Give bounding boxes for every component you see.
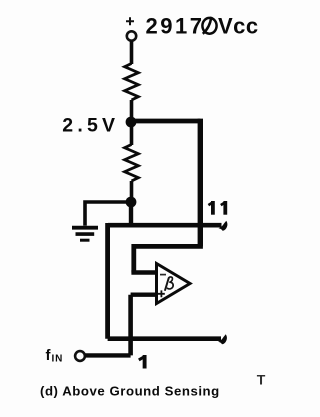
svg-text:T: T [257,372,266,388]
wire: 2.5V node to R2 [130,126,134,145]
plus sign above Vcc terminal [126,17,134,25]
wire: short vertical down to minus-input level [131,244,136,273]
wire: R1 to 2.5V node [130,100,134,118]
caption: (d) Above Ground Sensing [40,384,220,399]
resistor R1 (upper divider resistor) [125,64,139,101]
plus pin mark [158,290,165,297]
wire: left bus vertical [105,223,110,339]
label pin 1 [139,355,145,369]
stray letter T (cropped text) [257,372,266,388]
ground symbol [72,228,98,241]
wire: R2 to lower junction [130,181,134,200]
resistor R2 (lower divider resistor) [125,145,139,182]
wire: junction down to pin-11 lead [129,202,133,225]
wire: stub into op-amp non-inverting input [131,293,157,297]
wire: horizontal back to left [134,244,203,249]
wire: junction to ground [85,202,131,226]
wire: 2.5V node to right [131,119,200,124]
label 2917のVcc [146,14,259,39]
svg-text:(d) Above Ground Sensing: (d) Above Ground Sensing [40,384,220,399]
Vcc terminal circle [127,31,136,40]
fIN terminal circle [75,351,85,361]
beta symbol inside op-amp [165,277,173,290]
minus pin mark [160,274,166,276]
node 2.5V junction dot [126,117,137,128]
label fIN [46,347,64,365]
wire: pin-1 vertical down to fIN line [128,295,133,356]
svg-text:2.5V: 2.5V [62,115,119,137]
op-amp U1 (comparator) [157,264,191,304]
wire: terminal to R1 [130,41,134,64]
lead continuation tick (bottom lead) [218,334,227,344]
wire: bottom lead to the right [108,336,221,341]
wire: right vertical down [198,119,203,247]
lead continuation tick (pin 11) [219,221,228,231]
label pin 11 [208,201,225,215]
junction dot below R2 [126,197,137,208]
wire: stub into op-amp inverting input [131,270,157,274]
wire: fIN terminal to pin-1 vertical [85,353,130,357]
svg-text:Vcc: Vcc [218,14,259,39]
label 2.5V [62,115,119,137]
pin 11 lead wire [108,223,222,228]
svg-text:2917: 2917 [146,14,205,39]
svg-text:IN: IN [52,354,64,365]
